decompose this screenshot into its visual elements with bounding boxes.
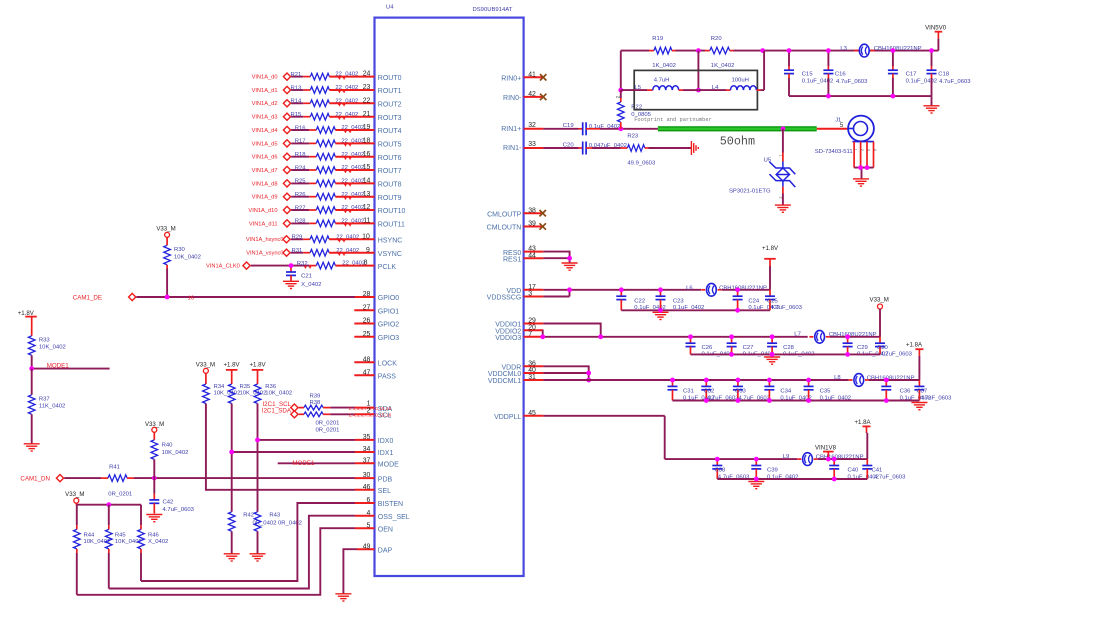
svg-text:45: 45 <box>528 410 536 417</box>
svg-text:R14: R14 <box>291 99 303 105</box>
wire net VIN1A_CLK0 <box>251 265 317 267</box>
wire 50ohm to J1 <box>817 128 848 130</box>
connector J1 SD-73403-511 <box>815 116 874 155</box>
svg-text:VIN1A_d6: VIN1A_d6 <box>252 155 278 161</box>
wire L8 to +1.8A <box>869 379 919 381</box>
svg-text:C38: C38 <box>715 468 727 474</box>
pin 42 RIN0- <box>503 91 543 102</box>
svg-text:V33_M: V33_M <box>196 361 215 368</box>
pin 27 GPIO1 <box>354 304 399 315</box>
junction C15 top <box>787 48 792 53</box>
capacitor C33 4.7uF_0603 <box>733 380 771 401</box>
wire net VIN1A_hsync0 <box>291 238 310 240</box>
no-connect RIN0+ <box>540 74 546 80</box>
junction rail R45 <box>106 502 111 507</box>
svg-text:4: 4 <box>873 149 877 151</box>
wire VDDIO2 down <box>542 330 545 337</box>
svg-text:MODE1: MODE1 <box>47 363 70 370</box>
svg-text:VDDSSCG: VDDSSCG <box>487 295 522 302</box>
svg-text:VIN1A_d8: VIN1A_d8 <box>252 181 278 187</box>
wire C19 to 50ohm line <box>600 128 658 130</box>
svg-text:C36: C36 <box>900 389 912 395</box>
svg-text:5: 5 <box>367 522 371 529</box>
svg-text:C34: C34 <box>780 389 792 395</box>
port VIN1A_d10 <box>248 206 290 214</box>
svg-text:+1.8V: +1.8V <box>223 361 240 368</box>
resistor R40 10K_0402 <box>151 432 188 478</box>
resistor R29 22_0402 <box>292 234 360 242</box>
wire net VIN1A_vsync0 <box>291 252 310 254</box>
resistor R22 0_0805 <box>616 90 652 129</box>
svg-text:R30: R30 <box>174 247 186 253</box>
svg-text:R46: R46 <box>148 532 160 538</box>
junction IDX0 R36 <box>255 438 260 443</box>
svg-text:L3: L3 <box>840 46 847 52</box>
junction VDDR rail <box>586 378 591 383</box>
svg-text:0R_0201: 0R_0201 <box>316 428 340 434</box>
ground DAP <box>335 594 351 601</box>
junction C17 top <box>891 48 896 53</box>
wire R23 to ground <box>649 147 692 149</box>
svg-text:R44: R44 <box>84 532 96 538</box>
svg-text:R25: R25 <box>295 179 307 185</box>
svg-text:10K_0402: 10K_0402 <box>265 390 292 396</box>
svg-text:R41: R41 <box>109 464 120 470</box>
pin 18 ROUT5 <box>363 138 402 149</box>
junction L5 L4 mid <box>696 88 701 93</box>
svg-text:L5: L5 <box>635 85 642 91</box>
resistor R13 22_0402 <box>291 85 359 93</box>
svg-text:+1.8A: +1.8A <box>906 342 923 349</box>
pin 31 VDDCML1 <box>488 374 543 385</box>
svg-text:VIN5V0: VIN5V0 <box>925 25 947 32</box>
svg-text:33: 33 <box>528 141 536 148</box>
power +1.8V R35 <box>223 361 240 370</box>
svg-text:BISTEN: BISTEN <box>378 501 403 508</box>
svg-text:X_0402: X_0402 <box>301 282 321 288</box>
ground RES0 RES1 <box>562 263 578 270</box>
diode U5 SP3021-01ETG TVS <box>729 129 795 205</box>
svg-text:18: 18 <box>363 138 371 145</box>
capacitor C40 0.1uF_0402 <box>829 459 879 480</box>
port VIN1A_CLK0 <box>206 262 250 270</box>
junction C35 top <box>806 378 811 383</box>
svg-text:C28: C28 <box>783 345 795 351</box>
capacitor C22 0.1uF_0402 <box>616 290 665 311</box>
resistor R46 X_0402 <box>138 505 169 581</box>
junction C28 bottom <box>770 352 775 357</box>
wire VDDPLL bottom rail <box>717 478 867 480</box>
svg-text:VIN1A_CLK0: VIN1A_CLK0 <box>206 264 240 270</box>
svg-text:R33: R33 <box>39 338 51 344</box>
wire net VIN1A_d1 <box>291 89 310 91</box>
power +1.8A VDDPLL <box>854 419 871 459</box>
svg-text:OEN: OEN <box>378 526 393 533</box>
svg-text:R43: R43 <box>269 513 281 519</box>
svg-text:VIN1A_d1: VIN1A_d1 <box>252 88 278 94</box>
capacitor C21 X_0402 <box>286 266 321 288</box>
pin 10 HSYNC <box>362 233 402 244</box>
wire VDDPLL to rail <box>543 416 712 459</box>
ground U5 <box>775 205 791 212</box>
svg-text:2: 2 <box>779 197 783 199</box>
junction MODE1 <box>29 366 34 371</box>
svg-text:16: 16 <box>188 296 194 302</box>
wire R13 to pin 23 <box>329 89 374 93</box>
wire caps bottom rail <box>789 96 932 105</box>
svg-text:1K_0402: 1K_0402 <box>652 63 676 69</box>
junction J1 shield a <box>858 165 863 170</box>
resistor R28 22_0402 <box>295 219 365 227</box>
pin 6 BISTEN <box>367 497 404 508</box>
svg-text:ROUT2: ROUT2 <box>378 102 402 109</box>
pin 26 GPIO2 <box>354 318 399 329</box>
svg-text:MODE: MODE <box>378 462 399 469</box>
wire L4 up to rail <box>763 51 765 91</box>
svg-text:ROUT8: ROUT8 <box>378 182 402 189</box>
svg-text:HSYNC: HSYNC <box>378 238 403 245</box>
svg-text:10: 10 <box>362 233 370 240</box>
junction C32 bottom <box>704 398 709 403</box>
resistor R23 49.9_0603 <box>621 133 656 166</box>
svg-text:10K_0402: 10K_0402 <box>39 344 66 350</box>
pin 16 ROUT6 <box>363 151 402 162</box>
wire R19 to R20 <box>676 50 706 52</box>
svg-text:X_0402: X_0402 <box>148 539 168 545</box>
svg-text:25: 25 <box>363 331 371 338</box>
svg-text:C32: C32 <box>704 389 715 395</box>
svg-text:15: 15 <box>363 164 371 171</box>
ground VDDCML caps <box>911 403 927 410</box>
svg-text:49: 49 <box>363 543 371 550</box>
junction VDDIO2 rail <box>540 334 545 339</box>
svg-text:R26: R26 <box>295 192 307 198</box>
wire R39 to pin 1 SDA <box>330 407 374 409</box>
svg-text:U4: U4 <box>386 5 394 11</box>
svg-text:R40: R40 <box>162 442 174 448</box>
svg-text:+1.8A: +1.8A <box>854 419 871 426</box>
junction C31 top <box>670 378 675 383</box>
svg-text:R38: R38 <box>310 400 322 406</box>
wire RES0 RES1 to ground <box>543 252 569 263</box>
wire VDDIO bottom rail <box>691 353 881 355</box>
wire R16 to pin 19 <box>335 129 374 133</box>
svg-text:R35: R35 <box>240 384 252 390</box>
svg-text:RIN0-: RIN0- <box>503 95 522 102</box>
svg-text:C42: C42 <box>163 499 174 505</box>
wire L7 to V33_M <box>830 336 880 338</box>
pin 23 ROUT1 <box>363 84 402 95</box>
resistor R19 1K_0402 <box>649 36 676 69</box>
junction C34 bottom <box>767 398 772 403</box>
svg-text:1: 1 <box>779 155 783 157</box>
wire net VIN1A_d11 <box>291 222 316 224</box>
svg-text:R21: R21 <box>291 72 302 78</box>
port VIN1A_d1 <box>252 86 291 94</box>
svg-text:RIN1+: RIN1+ <box>501 126 521 133</box>
svg-text:Footprint and partnumber: Footprint and partnumber <box>634 117 712 123</box>
svg-text:4.7uF_0603: 4.7uF_0603 <box>771 305 803 311</box>
svg-text:IDX0: IDX0 <box>378 438 394 445</box>
pin 17 VDD <box>507 284 544 295</box>
svg-text:GPIO0: GPIO0 <box>378 295 400 302</box>
junction IDX1 R35 <box>229 450 234 455</box>
svg-text:VIN1A_d9: VIN1A_d9 <box>252 195 278 201</box>
pin 19 ROUT4 <box>363 124 402 135</box>
power VIN5V0 <box>925 25 947 51</box>
capacitor C39 0.1uF_0402 <box>751 459 798 480</box>
pin 24 ROUT0 <box>363 71 402 82</box>
resistor R41 0R_0201 <box>108 464 132 497</box>
port VIN1A_d9 <box>252 193 291 201</box>
pin 34 IDX1 <box>363 446 394 457</box>
resistor R37 11K_0402 <box>28 369 65 444</box>
svg-text:1K_0402: 1K_0402 <box>711 63 735 69</box>
wire R25 to pin 14 <box>335 183 374 187</box>
pin 35 IDX0 <box>363 434 394 445</box>
power +1.8V R36 <box>249 361 266 370</box>
junction C17 bottom <box>891 94 896 99</box>
ground R42 <box>224 554 240 561</box>
svg-text:V33_M: V33_M <box>156 226 175 233</box>
pin 5 OEN <box>367 522 393 533</box>
svg-text:ROUT6: ROUT6 <box>378 155 402 162</box>
resistor R30 10K_0402 <box>164 237 201 268</box>
inductor L3 ferrite CBH1608U221NP <box>840 44 921 57</box>
inductor L7 ferrite CBH1608U221NP <box>794 330 876 343</box>
svg-text:CMLOUTN: CMLOUTN <box>487 225 522 232</box>
pin 2 SCL <box>349 407 392 419</box>
pin 43 RES0 <box>503 246 543 257</box>
junction C38 top <box>715 457 720 462</box>
svg-text:SP3021-01ETG: SP3021-01ETG <box>729 189 771 195</box>
svg-text:C40: C40 <box>848 468 860 474</box>
wire top rail <box>621 50 649 52</box>
ground C42 <box>146 515 162 522</box>
svg-text:3: 3 <box>528 291 532 298</box>
junction C35 bottom <box>806 398 811 403</box>
svg-text:VIN1A_hsync0: VIN1A_hsync0 <box>246 237 284 243</box>
svg-text:10K_0402: 10K_0402 <box>174 254 201 260</box>
pin 29 VDDIO1 <box>495 318 543 329</box>
pin 21 ROUT3 <box>363 111 402 122</box>
svg-text:R36: R36 <box>265 384 277 390</box>
svg-text:GPIO3: GPIO3 <box>378 335 400 342</box>
svg-text:16: 16 <box>363 151 371 158</box>
pin 47 PASS <box>354 369 396 380</box>
svg-text:R20: R20 <box>711 36 723 42</box>
svg-text:R28: R28 <box>295 219 307 225</box>
pin 14 ROUT8 <box>363 178 402 189</box>
pin 41 RIN0+ <box>501 71 543 82</box>
svg-text:VIN1A_d7: VIN1A_d7 <box>252 168 278 174</box>
junction C23 bottom <box>658 308 663 313</box>
pin 44 RES1 <box>503 252 543 263</box>
svg-text:24: 24 <box>363 71 371 78</box>
svg-text:10K_0402: 10K_0402 <box>214 390 241 396</box>
svg-text:L8: L8 <box>834 375 841 381</box>
wire 50ohm line <box>658 129 817 149</box>
svg-text:VIN1A_d11: VIN1A_d11 <box>249 221 278 227</box>
svg-text:C17: C17 <box>906 72 917 78</box>
svg-text:2: 2 <box>616 96 621 99</box>
resistor R32 22_0402 <box>297 261 365 269</box>
wire net VIN1A_d2 <box>291 102 310 104</box>
svg-text:11K_0402: 11K_0402 <box>39 403 65 409</box>
svg-text:ROUT11: ROUT11 <box>378 222 405 229</box>
wire VDDSSCG up <box>543 290 569 297</box>
wire net VIN1A_d10 <box>291 209 316 211</box>
svg-text:10K_0402: 10K_0402 <box>162 450 189 456</box>
svg-text:35: 35 <box>363 434 371 441</box>
svg-text:0R_0201: 0R_0201 <box>316 421 340 427</box>
capacitor C23 0.1uF_0402 <box>656 290 705 311</box>
pin 36 VDDR <box>501 360 543 371</box>
capacitor C20 0.047uF_0402 <box>563 142 627 155</box>
junction C33 bottom <box>736 398 741 403</box>
resistor R34 10K_0402 <box>203 373 241 403</box>
power V33_M VDDIO <box>870 297 889 337</box>
wire net OSS_SEL <box>109 516 375 589</box>
resistor R14 22_0402 <box>291 98 359 106</box>
svg-text:32: 32 <box>528 122 536 129</box>
junction J1 shield b <box>865 165 870 170</box>
wire R32 to pin 8 <box>304 265 374 269</box>
capacitor C35 0.1uF_0402 <box>804 380 851 401</box>
svg-text:C30: C30 <box>877 345 889 351</box>
svg-text:C26: C26 <box>702 345 714 351</box>
port VIN1A_vsync0 <box>246 249 290 257</box>
wire R36 to R43 <box>257 404 259 512</box>
svg-text:RIN0+: RIN0+ <box>501 76 521 83</box>
svg-text:C39: C39 <box>767 468 778 474</box>
resistor R18 22_0402 <box>295 152 365 160</box>
svg-text:PASS: PASS <box>378 374 396 381</box>
svg-text:C19: C19 <box>563 123 574 129</box>
inductor L5 4.7uH <box>621 78 699 91</box>
junction VIN1V8 <box>826 457 831 462</box>
resistor R17 22_0402 <box>295 139 365 147</box>
wire R18 to pin 16 <box>335 156 374 160</box>
resistor R25 22_0402 <box>295 179 365 187</box>
wire net CAM1_DE GPIO0 <box>136 296 374 302</box>
wire R17 to pin 18 <box>335 143 374 147</box>
resistor R42 0R_0402 <box>228 512 276 554</box>
svg-text:ROUT3: ROUT3 <box>378 115 402 122</box>
svg-text:C41: C41 <box>872 468 883 474</box>
port CAM1_DE <box>73 293 136 301</box>
svg-text:VSYNC: VSYNC <box>378 251 402 258</box>
capacitor C19 0.1uF_0402 <box>563 122 621 135</box>
ground VDDIO caps <box>764 357 780 364</box>
junction C22 top <box>619 287 624 292</box>
svg-text:PDB: PDB <box>378 476 393 483</box>
svg-text:C24: C24 <box>748 298 760 304</box>
port VIN1A_d7 <box>252 166 291 174</box>
svg-text:VIN1A_d3: VIN1A_d3 <box>252 115 278 121</box>
port VIN1A_d4 <box>252 126 291 133</box>
resistor R27 22_0402 <box>295 205 365 213</box>
capacitor C15 0.1uF_0402 <box>784 51 833 97</box>
pin 8 PCLK <box>364 260 397 271</box>
no-connect CMLOUTP <box>540 210 546 216</box>
svg-text:V33_M: V33_M <box>65 491 84 498</box>
junction C28 top <box>770 334 775 339</box>
power V33_M R30 <box>156 226 175 238</box>
svg-text:4.7uF_0603: 4.7uF_0603 <box>836 79 868 85</box>
svg-text:LOCK: LOCK <box>378 361 397 368</box>
inductor L9 ferrite CBH1608U221NP <box>783 453 864 466</box>
pin 46 SEL <box>355 484 391 495</box>
svg-text:50ohm: 50ohm <box>720 135 755 149</box>
resistor R15 22_0402 <box>291 112 359 120</box>
svg-text:L4: L4 <box>712 85 719 91</box>
ground C18 rail <box>924 106 940 113</box>
junction C24 bottom <box>735 308 740 313</box>
port VIN1A_d0 <box>252 73 291 81</box>
svg-text:IDX1: IDX1 <box>378 450 394 457</box>
capacitor C41 4.7uF_0603 <box>862 459 906 480</box>
capacitor C29 0.1uF_0402 <box>843 337 889 358</box>
capacitor C38 4.7uF_0603 <box>712 459 750 480</box>
svg-text:CBH1608U221NP: CBH1608U221NP <box>874 46 922 52</box>
svg-text:CAM1_DN: CAM1_DN <box>20 476 50 483</box>
junction C36 bottom <box>884 398 889 403</box>
svg-text:44: 44 <box>528 252 536 259</box>
svg-text:R39: R39 <box>310 394 321 400</box>
svg-text:11: 11 <box>363 218 370 225</box>
junction C27 top <box>729 334 734 339</box>
junction C24 top <box>735 287 740 292</box>
svg-text:R31: R31 <box>292 248 303 254</box>
junction C29 bottom <box>845 352 850 357</box>
wire VDD rail <box>543 289 701 291</box>
capacitor C16 4.7uF_0603 <box>823 51 868 97</box>
capacitor C27 0.1uF_0402 <box>727 337 774 358</box>
svg-text:1: 1 <box>854 149 858 151</box>
svg-text:DAP: DAP <box>378 547 393 554</box>
no-connect RIN0- <box>540 94 546 100</box>
svg-text:C23: C23 <box>673 298 685 304</box>
svg-text:ROUT10: ROUT10 <box>378 208 406 215</box>
wire VDDCML bottom rail <box>673 400 920 402</box>
svg-text:4.7uF_0603: 4.7uF_0603 <box>881 352 913 358</box>
svg-text:28: 28 <box>363 291 371 298</box>
pin 7 VDDIO3 <box>495 331 543 342</box>
wire R15 to pin 21 <box>329 116 374 120</box>
svg-text:R19: R19 <box>652 36 663 42</box>
wire R31 to pin 9 <box>329 252 374 256</box>
wire R30 to CAM1_DE <box>166 269 168 298</box>
svg-text:VIN1A_d10: VIN1A_d10 <box>248 208 277 214</box>
capacitor C42 4.7uF_0603 <box>149 478 194 513</box>
junction VDD VDDSSCG <box>567 287 572 292</box>
wire net VIN1A_d4 <box>291 129 316 131</box>
port VIN1A_d5 <box>252 140 291 148</box>
svg-text:C35: C35 <box>820 389 832 395</box>
wire VDDR down <box>543 366 588 380</box>
pin 40 VDDCML0 <box>488 367 543 378</box>
wire L9 to +1.8A <box>818 458 868 460</box>
svg-text:ROUT1: ROUT1 <box>378 88 402 95</box>
svg-text:L6: L6 <box>686 285 693 291</box>
svg-text:37: 37 <box>363 457 371 464</box>
wire RIN1+ to C19 <box>543 128 578 130</box>
inductor L6 ferrite CBH1608U221NP <box>686 283 767 296</box>
svg-text:4: 4 <box>367 510 371 517</box>
resistor R20 1K_0402 <box>705 36 734 69</box>
svg-text:L7: L7 <box>794 332 801 338</box>
